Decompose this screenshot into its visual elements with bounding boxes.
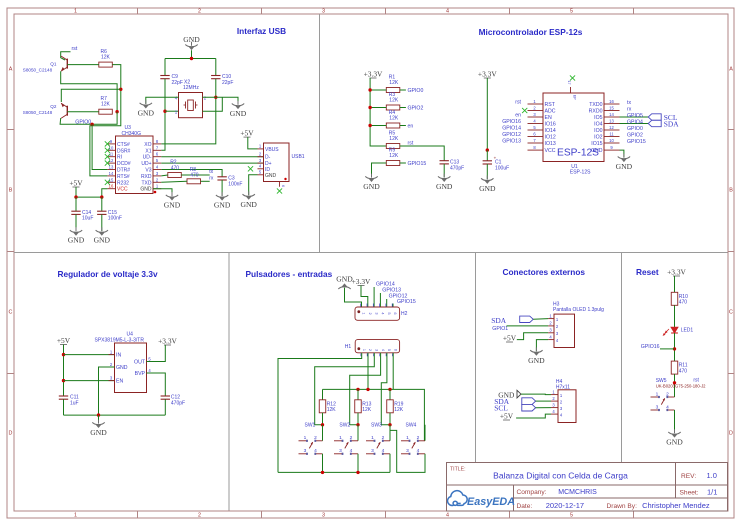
svg-text:DSR#: DSR#: [117, 148, 131, 154]
power flag +5V: [69, 179, 83, 188]
no-connect flag: [105, 141, 110, 146]
svg-text:5: 5: [570, 513, 573, 519]
capacitor C10: [211, 74, 233, 86]
wire rail to R3: [370, 107, 386, 109]
wire 3v3 rail resistors: [370, 78, 386, 146]
svg-text:22pF: 22pF: [172, 80, 183, 86]
USB1 shield pin: [279, 182, 281, 187]
svg-text:100uF: 100uF: [495, 165, 509, 171]
wire 5v rail: [76, 196, 102, 198]
svg-text:470: 470: [679, 300, 688, 306]
svg-text:CH340G: CH340G: [122, 131, 142, 137]
svg-text:1: 1: [362, 312, 366, 314]
svg-text:2: 2: [382, 435, 385, 441]
junction SW2 gnd: [356, 471, 359, 474]
svg-text:1: 1: [406, 435, 409, 441]
wire rail to R19: [389, 389, 391, 399]
svg-text:3: 3: [322, 9, 325, 15]
svg-text:4: 4: [381, 312, 385, 314]
svg-text:Q2: Q2: [50, 104, 57, 109]
frame column numbers: [74, 9, 573, 519]
EasyEDA logo: [448, 491, 516, 508]
wire C15 to gnd: [101, 214, 103, 231]
wire C13 to gnd: [443, 164, 445, 178]
wire SDA to H3: [533, 318, 548, 321]
svg-text:GND: GND: [436, 182, 453, 191]
connector USB1: [264, 143, 305, 182]
svg-text:2: 2: [314, 435, 317, 441]
svg-text:en: en: [515, 113, 521, 119]
svg-text:100nF: 100nF: [108, 216, 122, 222]
svg-text:rst: rst: [72, 46, 78, 52]
wire gnd stem: [191, 50, 193, 58]
svg-text:S8050_C2148: S8050_C2148: [23, 110, 53, 115]
U1 pins: [528, 99, 620, 154]
svg-text:H7x11: H7x11: [556, 385, 570, 391]
wire R8 right: [201, 180, 210, 182]
svg-text:X1: X1: [145, 148, 151, 154]
svg-text:RTS#: RTS#: [117, 174, 130, 180]
ground: [138, 100, 155, 117]
svg-text:+5V: +5V: [240, 129, 254, 138]
svg-text:12K: 12K: [389, 153, 399, 159]
junction rst SW5: [673, 381, 676, 384]
no-connect flag: [277, 188, 282, 193]
svg-text:3: 3: [339, 448, 342, 454]
svg-text:CTS#: CTS#: [117, 142, 130, 148]
wire crystal pin3 loop: [203, 97, 223, 111]
U1 GND wire: [620, 150, 624, 157]
wire C1 to gnd: [486, 164, 488, 179]
wire BVP to C12: [147, 373, 166, 396]
svg-text:2: 2: [198, 9, 201, 15]
wire R4 right: [400, 125, 406, 127]
junction top rail: [190, 57, 193, 60]
junction C14: [74, 195, 77, 198]
junction DTR branch: [90, 123, 93, 126]
svg-text:4: 4: [381, 349, 385, 351]
junction IN: [62, 353, 65, 356]
svg-text:3: 3: [656, 404, 659, 410]
wire R5 to C13: [400, 146, 444, 161]
wire +5V to VBUS: [248, 137, 258, 149]
no-connect flag: [570, 75, 575, 80]
svg-text:Balanza Digital con Celda de C: Balanza Digital con Celda de Carga: [493, 470, 628, 480]
svg-text:V3: V3: [145, 168, 151, 174]
connector H2: [355, 304, 408, 321]
svg-text:1/1: 1/1: [707, 488, 717, 497]
wire SW3 pin2 up: [389, 425, 391, 441]
svg-text:3: 3: [375, 349, 379, 351]
resistor R19: [387, 400, 404, 413]
svg-text:IO4: IO4: [594, 122, 602, 128]
svg-text:12K: 12K: [101, 102, 111, 108]
LED LED1: [663, 327, 694, 336]
svg-text:470: 470: [679, 368, 688, 374]
capacitor C9: [160, 74, 183, 86]
svg-text:2: 2: [368, 312, 372, 314]
svg-text:GND: GND: [616, 162, 633, 171]
wire rail to R12: [322, 389, 324, 399]
resistor R4: [386, 110, 400, 128]
wire +5V stem: [75, 187, 77, 197]
svg-text:GPIO0: GPIO0: [75, 120, 91, 126]
svg-text:1: 1: [362, 349, 366, 351]
svg-text:IO5: IO5: [594, 115, 602, 121]
svg-text:GND: GND: [265, 173, 277, 179]
svg-text:ADC: ADC: [545, 109, 556, 115]
ground: [214, 192, 231, 209]
wire SW2 pin2 up: [357, 425, 359, 441]
junction R3: [368, 106, 371, 109]
wire H1 pin4 SW2: [350, 353, 381, 425]
svg-text:GND: GND: [528, 356, 545, 365]
wire C10 top stem: [215, 59, 217, 76]
H4 pins: [551, 389, 563, 417]
wire C9 top stem: [164, 59, 166, 76]
resistor R7: [99, 96, 113, 114]
wire R11 to SW5: [674, 374, 676, 397]
power flag +3.3V: [667, 268, 686, 277]
ground: [666, 429, 683, 446]
wire 3v3 rail esp: [486, 78, 488, 150]
power flag +5V: [503, 334, 517, 343]
svg-text:VBUS: VBUS: [265, 147, 279, 153]
svg-text:6: 6: [393, 349, 397, 351]
wire C3 to gnd: [221, 180, 223, 196]
svg-text:+5V: +5V: [57, 336, 71, 345]
svg-text:1.0: 1.0: [707, 471, 717, 480]
wire H1 pin1 gnd: [278, 353, 362, 473]
svg-text:6: 6: [281, 185, 285, 187]
svg-text:Pulsadores - entradas: Pulsadores - entradas: [246, 269, 333, 279]
svg-text:rst: rst: [515, 100, 521, 106]
wire 3v3 to H2 pin2: [361, 286, 368, 308]
svg-text:12K: 12K: [362, 407, 372, 413]
wire 3v3 to R10: [674, 276, 676, 292]
wire SW1 pin2 up: [322, 425, 324, 441]
ground: [479, 176, 496, 193]
svg-text:6: 6: [393, 312, 397, 314]
resistor R11: [671, 361, 687, 374]
svg-text:GND: GND: [214, 201, 231, 210]
svg-text:+3.3V: +3.3V: [364, 70, 383, 79]
svg-text:VCC: VCC: [117, 187, 128, 193]
svg-text:17: 17: [567, 81, 571, 85]
section divider horizontal: [14, 252, 728, 254]
wire Q1 base to R6: [67, 64, 99, 66]
net port SDA: [648, 120, 661, 126]
title block border: [447, 463, 728, 512]
ground: [616, 154, 633, 171]
svg-text:4: 4: [446, 9, 449, 15]
capacitor C11: [59, 395, 79, 407]
capacitor C12: [161, 395, 185, 407]
wire SW5 to gnd: [674, 410, 676, 433]
svg-text:12K: 12K: [389, 98, 399, 104]
svg-text:14: 14: [109, 171, 114, 176]
wire H1 pin6 down: [392, 353, 394, 390]
svg-text:H1: H1: [345, 344, 352, 350]
svg-text:Sheet:: Sheet:: [680, 490, 699, 497]
svg-text:1: 1: [339, 435, 342, 441]
svg-text:SW4: SW4: [406, 423, 417, 429]
resistor R12: [319, 400, 336, 413]
wire SW4 pin2 up: [424, 425, 426, 441]
junction R19 bottom: [388, 423, 391, 426]
svg-text:+3.3V: +3.3V: [667, 268, 686, 277]
svg-text:ESP-12S: ESP-12S: [570, 170, 591, 176]
resistor R5: [386, 131, 400, 149]
ground: [230, 101, 247, 118]
svg-text:Date:: Date:: [517, 503, 533, 510]
svg-text:R232: R232: [117, 180, 129, 186]
wire GND pin U4: [99, 367, 115, 415]
svg-text:UD+: UD+: [141, 161, 151, 167]
svg-text:3: 3: [406, 448, 409, 454]
switch SW2: [334, 435, 358, 455]
svg-text:12MHz: 12MHz: [183, 85, 199, 91]
wire OUT to 3v3: [147, 345, 166, 362]
svg-text:22pF: 22pF: [222, 80, 233, 86]
svg-text:DTR#: DTR#: [117, 168, 130, 174]
switch SW1: [299, 435, 323, 455]
svg-text:GND: GND: [183, 35, 200, 44]
svg-text:12K: 12K: [327, 407, 337, 413]
svg-text:GPIO0: GPIO0: [408, 88, 424, 94]
section divider vertical top: [319, 14, 321, 253]
connector H3: [553, 301, 604, 347]
frame row ticks: [7, 130, 734, 374]
svg-text:GND: GND: [68, 236, 85, 245]
wire C15 stem: [101, 197, 103, 211]
svg-text:1: 1: [304, 435, 307, 441]
junction R12 bottom: [321, 423, 324, 426]
section divider pulsadores/conectores: [475, 253, 477, 463]
svg-text:10: 10: [609, 138, 614, 143]
wire H2 pin5 stub: [386, 299, 388, 307]
wire crystal pin2 to GND: [203, 97, 239, 104]
svg-text:GPIO4: GPIO4: [627, 120, 643, 126]
svg-text:4: 4: [446, 513, 449, 519]
svg-text:LED1: LED1: [681, 327, 694, 333]
wire C12 down: [164, 399, 166, 415]
svg-text:100nF: 100nF: [228, 182, 242, 188]
svg-text:2: 2: [666, 391, 669, 397]
svg-text:IO12: IO12: [545, 135, 556, 141]
frame row letters: [9, 67, 734, 437]
junction GPIO16: [673, 347, 676, 350]
ground: [164, 192, 181, 209]
svg-text:Regulador de voltaje 3.3v: Regulador de voltaje 3.3v: [58, 269, 158, 279]
junction Q2 emitter / R6 net: [119, 88, 122, 91]
power flag +3.3V: [478, 70, 497, 79]
wire R2 right: [181, 174, 209, 176]
section divider regulator/pulsadores: [228, 253, 230, 511]
svg-text:1uF: 1uF: [70, 401, 79, 407]
resistor R8: [187, 167, 201, 184]
wire GPIO1 to H3 pin2: [507, 325, 548, 328]
svg-text:TXD: TXD: [142, 180, 152, 186]
wire IO5 to SCL: [620, 116, 649, 118]
wire 5v rail reg: [63, 345, 65, 397]
wire H1 pin2 rail: [367, 353, 369, 390]
junction crystal pin2: [214, 96, 217, 99]
svg-text:OUT: OUT: [134, 360, 146, 366]
wire C1 stem: [486, 150, 488, 161]
svg-text:Pantalla OLED 1.3pulg: Pantalla OLED 1.3pulg: [553, 307, 604, 313]
wire C10 to X0: [161, 79, 216, 144]
wire top rail: [165, 58, 216, 60]
wire H2 pin3 stub: [373, 287, 375, 307]
wire H1 pin5 SW3: [381, 353, 390, 425]
svg-text:470pF: 470pF: [450, 165, 464, 171]
svg-text:2: 2: [198, 513, 201, 519]
svg-text:B: B: [729, 188, 733, 194]
wire V3 to C3: [161, 170, 222, 177]
svg-text:Interfaz USB: Interfaz USB: [237, 26, 286, 36]
junction crystal pin1: [163, 110, 166, 113]
svg-text:RXD: RXD: [141, 174, 152, 180]
resistor R9: [386, 148, 400, 166]
svg-text:UK-B0203G75-250-180-J2: UK-B0203G75-250-180-J2: [656, 383, 706, 388]
svg-text:SW2: SW2: [339, 423, 350, 429]
svg-text:EN: EN: [116, 379, 123, 385]
switch SW5: [651, 391, 675, 411]
svg-text:5: 5: [387, 349, 391, 351]
wire R9 to GND: [372, 163, 387, 177]
resistor R13: [355, 400, 372, 413]
switch SW3: [366, 435, 390, 455]
svg-text:2: 2: [350, 435, 353, 441]
wire SW1 pin4 down: [322, 454, 324, 473]
resistor R2: [168, 160, 182, 178]
wire +5V to H3 pin3: [517, 333, 548, 340]
svg-text:GND: GND: [479, 184, 496, 193]
svg-text:GPIO16: GPIO16: [641, 344, 660, 350]
svg-text:USB1: USB1: [292, 154, 305, 160]
wire Q2 emitter loop: [61, 89, 121, 102]
svg-text:GND: GND: [94, 236, 111, 245]
power flag +5V: [57, 336, 71, 345]
svg-text:IO13: IO13: [545, 141, 556, 147]
resistor R1: [386, 75, 400, 93]
svg-text:A: A: [9, 67, 13, 73]
ground: [528, 347, 545, 364]
svg-text:C: C: [729, 310, 733, 316]
svg-text:2020-12-17: 2020-12-17: [546, 501, 584, 510]
ground: [68, 227, 85, 244]
wire SCL to H4 pin3: [536, 407, 551, 409]
svg-text:4: 4: [382, 448, 385, 454]
wire R10 to LED: [674, 305, 676, 327]
svg-text:470pF: 470pF: [171, 401, 185, 407]
H3 pins: [548, 313, 559, 342]
svg-text:GND: GND: [140, 187, 152, 193]
wire crystal pin1: [165, 110, 179, 112]
junction EN: [62, 379, 65, 382]
svg-text:Drawn By:: Drawn By:: [607, 503, 638, 510]
wire GPIO16: [660, 348, 675, 350]
svg-text:Company:: Company:: [517, 489, 547, 496]
wire R9 right: [400, 162, 406, 164]
svg-text:5: 5: [570, 9, 573, 15]
no-connect flag: [522, 108, 527, 113]
junction R13 bottom: [356, 423, 359, 426]
wire H2 pin4 stub: [379, 293, 381, 307]
junction C15: [100, 195, 103, 198]
junction R7 right: [115, 110, 118, 113]
U3 VCC wire: [102, 189, 108, 197]
svg-text:13: 13: [609, 118, 614, 123]
transistor Q2: [61, 103, 67, 118]
svg-text:GPIO12: GPIO12: [502, 132, 521, 138]
svg-text:+5V: +5V: [503, 334, 517, 343]
svg-text:16: 16: [609, 99, 614, 104]
svg-text:12K: 12K: [101, 55, 111, 61]
svg-text:GPIO13: GPIO13: [502, 139, 521, 145]
wire H1 pin3 SW1: [315, 353, 375, 425]
svg-text:+5V: +5V: [69, 179, 83, 188]
wire GND to H4 pin1: [521, 393, 551, 396]
power flag +3.3V: [352, 277, 371, 286]
wire R1 right: [400, 89, 406, 91]
IC U3 CH340G: [116, 125, 154, 193]
wire gnd stem reg: [98, 415, 100, 423]
capacitor C3: [217, 176, 242, 188]
svg-text:MCMCHRIS: MCMCHRIS: [558, 489, 597, 496]
junction R4: [368, 124, 371, 127]
ground: [363, 174, 380, 191]
svg-text:3: 3: [374, 312, 378, 314]
svg-text:4: 4: [350, 448, 353, 454]
svg-text:IO14: IO14: [545, 128, 556, 134]
junction R1: [368, 88, 371, 91]
svg-text:SW1: SW1: [305, 423, 316, 429]
wire reg gnd rail: [64, 414, 166, 416]
ground: [94, 227, 111, 244]
svg-text:IN: IN: [116, 353, 121, 359]
svg-text:1: 1: [371, 435, 374, 441]
svg-text:+3.3V: +3.3V: [478, 70, 497, 79]
svg-text:+3.3V: +3.3V: [158, 337, 177, 346]
power flag +3.3V: [158, 337, 177, 346]
svg-text:GPIO2: GPIO2: [627, 133, 643, 139]
svg-text:12: 12: [609, 125, 614, 130]
svg-text:GND: GND: [240, 200, 257, 209]
svg-text:12K: 12K: [394, 407, 404, 413]
svg-text:470: 470: [171, 165, 180, 171]
capacitor C14: [71, 210, 93, 222]
svg-text:2: 2: [368, 349, 372, 351]
svg-text:GPIO15: GPIO15: [408, 161, 427, 167]
svg-text:TITLE:: TITLE:: [450, 467, 466, 473]
wire C11 down: [63, 399, 65, 415]
svg-text:GND: GND: [230, 109, 247, 118]
wire IO4 to SDA: [620, 123, 649, 125]
IC U1 ESP-12S: [543, 93, 604, 176]
svg-text:4: 4: [314, 448, 317, 454]
junction R13 top: [356, 388, 359, 391]
wire SW2 pin4 down: [357, 454, 359, 473]
svg-text:rst: rst: [408, 141, 414, 147]
power flag +5V: [500, 412, 514, 421]
wire to IN: [64, 354, 115, 356]
capacitor C1: [483, 155, 510, 171]
no-connect flag: [105, 154, 110, 159]
resistor R3: [386, 92, 400, 110]
svg-text:A: A: [729, 67, 733, 73]
